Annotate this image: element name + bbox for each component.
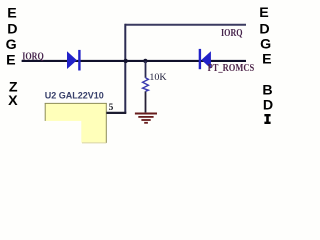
resistor R 10K zigzag: [143, 78, 149, 92]
wire: pin 5 horizontal stub: [106, 112, 126, 114]
svg-text:PT_ROMCS: PT_ROMCS: [208, 63, 255, 74]
svg-text:5: 5: [109, 103, 114, 113]
svg-text:X: X: [8, 93, 18, 109]
diode D-left (anode left, cathode bar right): [67, 50, 81, 71]
svg-text:G: G: [6, 37, 17, 53]
svg-text:IORQ: IORQ: [22, 51, 44, 62]
svg-text:E: E: [7, 6, 16, 22]
svg-text:G: G: [260, 37, 271, 53]
diode D-right (anode right, cathode bar left): [199, 49, 211, 69]
svg-text:E: E: [262, 52, 271, 68]
svg-text:D: D: [259, 22, 269, 38]
ground symbol: [135, 114, 157, 123]
svg-text:D: D: [263, 98, 273, 114]
wire: vertical from top branch down to pin 5: [124, 24, 126, 113]
svg-text:E: E: [259, 5, 268, 21]
wire: resistor bottom stub to ground: [145, 91, 147, 112]
junction dot at vertical wire / main wire: [124, 59, 128, 63]
svg-text:E: E: [6, 53, 15, 69]
part U2 GAL22V10 body (yellow box, clipped by image edge): [44, 103, 107, 144]
svg-text:U2 GAL22V10: U2 GAL22V10: [45, 90, 104, 101]
wire: top horizontal IORQ branch: [125, 24, 246, 26]
svg-text:10K: 10K: [149, 72, 166, 83]
svg-text:D: D: [7, 22, 17, 38]
edge text right: I: [264, 114, 270, 124]
wire: main horizontal IORQ net: [22, 60, 246, 62]
svg-text:IORQ: IORQ: [221, 28, 243, 39]
junction dot at resistor branch / main wire: [143, 59, 147, 63]
wire: resistor top stub: [145, 61, 147, 78]
svg-text:B: B: [262, 83, 272, 99]
